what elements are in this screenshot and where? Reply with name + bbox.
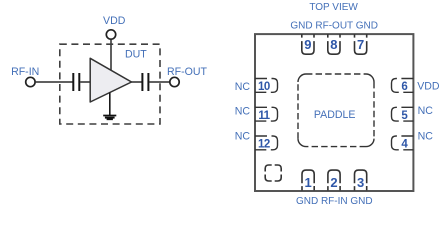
wire amplifier to ground (109, 93, 111, 116)
DUT dashed box (60, 44, 160, 124)
pin 9 (302, 34, 314, 54)
pin 7 (355, 34, 367, 54)
pin 1 (302, 170, 314, 191)
terminal VDD (106, 30, 115, 39)
svg-text:4: 4 (401, 139, 408, 151)
svg-text:NC: NC (418, 105, 434, 117)
svg-text:11: 11 (258, 110, 270, 122)
pin 11 (255, 107, 278, 121)
svg-text:PADDLE: PADDLE (314, 109, 356, 121)
pin 3 (355, 170, 367, 191)
ground (103, 116, 116, 120)
svg-text:GND RF-IN GND: GND RF-IN GND (296, 196, 373, 207)
svg-text:DUT: DUT (125, 49, 147, 61)
svg-text:6: 6 (401, 81, 407, 93)
svg-text:NC: NC (235, 131, 251, 143)
svg-text:NC: NC (235, 81, 251, 93)
wire C1 to amplifier (80, 81, 90, 83)
svg-text:8: 8 (330, 37, 337, 52)
pin 4 (392, 136, 414, 150)
svg-text:9: 9 (304, 37, 311, 52)
terminal RF-IN (26, 77, 35, 86)
package outline (255, 34, 413, 191)
pin-1 indicator corner mark (265, 165, 281, 181)
pin 10 (255, 79, 278, 93)
svg-text:2: 2 (330, 175, 337, 190)
pin 8 (328, 34, 340, 54)
svg-text:RF-IN: RF-IN (11, 66, 39, 78)
svg-text:RF-OUT: RF-OUT (167, 66, 208, 78)
wire RF-IN to C1 (36, 81, 73, 83)
svg-text:NC: NC (418, 130, 434, 142)
paddle dashed outline (298, 74, 374, 147)
svg-text:10: 10 (258, 81, 270, 93)
pin 5 (392, 107, 414, 121)
wire C2 to RF-OUT (149, 81, 169, 83)
svg-text:NC: NC (235, 105, 251, 117)
pin 2 (328, 170, 340, 191)
svg-text:7: 7 (357, 37, 364, 52)
pin 12 (255, 136, 278, 150)
wire amplifier to C2 (132, 81, 142, 83)
capacitor C1 (73, 73, 79, 91)
svg-text:12: 12 (258, 139, 270, 151)
svg-text:VDD: VDD (417, 81, 440, 93)
terminal RF-OUT (170, 77, 179, 86)
pin 6 (392, 79, 414, 93)
svg-text:3: 3 (357, 175, 364, 190)
svg-text:GND RF-OUT GND: GND RF-OUT GND (290, 21, 378, 32)
svg-text:TOP VIEW: TOP VIEW (309, 2, 358, 13)
svg-text:5: 5 (401, 110, 408, 122)
wire VDD to amplifier (110, 40, 112, 71)
svg-text:1: 1 (304, 175, 311, 190)
op-amp U1 (90, 58, 131, 102)
svg-text:VDD: VDD (103, 15, 126, 27)
capacitor C2 (142, 73, 148, 91)
